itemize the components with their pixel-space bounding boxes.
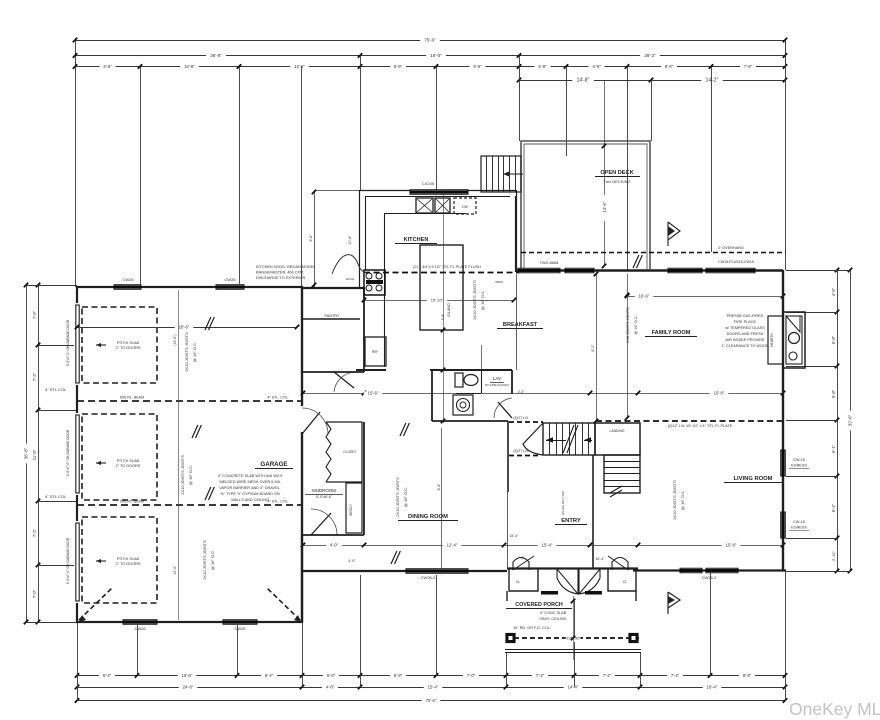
svg-text:15'-4": 15'-4" <box>509 534 519 538</box>
steel beam flush note + dashed beam <box>364 272 520 274</box>
svg-text:@ 16" O.C.: @ 16" O.C. <box>680 490 685 510</box>
svg-text:VAPOR BARRIER AND 4" GRAVEL.: VAPOR BARRIER AND 4" GRAVEL. <box>219 486 281 490</box>
svg-text:36'-8": 36'-8" <box>24 447 29 459</box>
porch column centerline dim <box>573 596 575 660</box>
svg-text:CW26-2: CW26-2 <box>702 575 717 580</box>
svg-text:LANDING: LANDING <box>609 429 624 433</box>
stair landing <box>595 423 640 455</box>
svg-text:2" TO DOORS: 2" TO DOORS <box>116 346 141 350</box>
svg-text:WALLS AND CEILING: WALLS AND CEILING <box>231 498 269 502</box>
kitchen counter lines <box>384 213 466 215</box>
svg-text:VINYL CEILING: VINYL CEILING <box>539 617 566 621</box>
svg-text:CW26: CW26 <box>224 277 236 282</box>
svg-text:7'-0": 7'-0" <box>32 310 37 319</box>
svg-text:6'-1": 6'-1" <box>831 444 836 453</box>
svg-text:4" CONC SLAB: 4" CONC SLAB <box>540 611 567 615</box>
svg-text:2X10 JOISTS JOISTS: 2X10 JOISTS JOISTS <box>184 332 189 372</box>
garage dashed slab bay 2 <box>82 414 157 500</box>
breakfast-family vertical dim <box>627 274 629 418</box>
svg-text:12'-6": 12'-6" <box>294 64 305 69</box>
svg-text:8'-6": 8'-6" <box>665 64 674 69</box>
bottom dim row1 garage 6'-4/16'-6/6'-4 and porch 7'-2/7'-2 7'-4/8'-8 <box>77 675 302 677</box>
svg-text:PITCH SLAB: PITCH SLAB <box>117 459 140 463</box>
deck stairs <box>481 156 521 192</box>
svg-text:4" CONCRETE SLAB WITH 6x6 W2.9: 4" CONCRETE SLAB WITH 6x6 W2.9 <box>218 474 282 478</box>
svg-text:LIVING ROOM: LIVING ROOM <box>734 476 773 482</box>
svg-text:8'-6": 8'-6" <box>473 64 482 69</box>
svg-text:TWG-6668: TWG-6668 <box>540 261 559 265</box>
dim line second row 36'-8 / 16'-0 / 28'-2 <box>75 55 785 57</box>
svg-text:7'-6": 7'-6" <box>744 64 753 69</box>
interior dim line 15'-6 / 15'-8 upper <box>303 393 783 395</box>
svg-text:14'-4": 14'-4" <box>568 685 579 690</box>
svg-text:@ 16" O.C.: @ 16" O.C. <box>480 290 485 310</box>
dim line third row small segments <box>75 66 785 68</box>
svg-text:ISLAND: ISLAND <box>447 303 451 317</box>
svg-text:EGRESS: EGRESS <box>791 526 807 530</box>
lower run break line <box>610 486 622 493</box>
svg-text:@ 16" O.C.: @ 16" O.C. <box>192 342 197 362</box>
mudroom bench <box>346 483 362 533</box>
svg-text:DOORS AND FRESH: DOORS AND FRESH <box>727 332 764 336</box>
dining front wall <box>302 570 507 572</box>
svg-text:LAV: LAV <box>493 376 502 381</box>
svg-text:5'-8": 5'-8" <box>538 64 547 69</box>
svg-text:REF: REF <box>372 350 378 354</box>
svg-text:CW15-PLUS15-CW15: CW15-PLUS15-CW15 <box>718 260 754 264</box>
main stair treads <box>543 423 595 455</box>
kitchen refrigerator <box>365 337 386 366</box>
dining window CW26-2 <box>406 569 468 574</box>
entry west wall <box>507 421 509 492</box>
stair direction arrows <box>546 440 566 442</box>
svg-text:21'-6": 21'-6" <box>173 565 177 574</box>
east wall <box>782 270 784 571</box>
bottom extension lines below building <box>77 622 79 701</box>
svg-text:7'-2": 7'-2" <box>32 372 37 381</box>
svg-text:2X8 JOISTS JOISTS: 2X8 JOISTS JOISTS <box>626 307 630 343</box>
svg-text:4'-6": 4'-6" <box>831 287 836 296</box>
svg-text:CW26: CW26 <box>122 277 134 282</box>
top dimension lines block <box>73 38 787 84</box>
lav washer <box>453 395 473 415</box>
garage dashed slab bay 3 <box>82 517 157 603</box>
breakfast east vertical dim <box>596 274 598 421</box>
svg-text:12'-4": 12'-4" <box>447 543 458 548</box>
kitchen sink unit double basin <box>416 198 433 213</box>
svg-text:AIR INTAKE PROVIDE: AIR INTAKE PROVIDE <box>726 338 765 342</box>
garage corner brace dashed right <box>267 588 300 620</box>
family joists slashes <box>633 255 639 268</box>
svg-text:7'-2": 7'-2" <box>603 673 612 678</box>
svg-text:CW26-2: CW26-2 <box>421 575 436 580</box>
svg-text:4'-0": 4'-0" <box>348 559 356 563</box>
svg-text:6'-4": 6'-4" <box>831 503 836 512</box>
left outer dimension line 36'-8 <box>26 285 28 622</box>
svg-text:16'-6": 16'-6" <box>182 673 193 678</box>
left dim connector stubs <box>26 285 77 287</box>
svg-text:CX245: CX245 <box>422 181 435 186</box>
svg-text:7'-2": 7'-2" <box>32 528 37 537</box>
svg-text:2" TO DOORS: 2" TO DOORS <box>116 562 141 566</box>
svg-text:(2)12" LVL W/ 1/2" x 1" STL FL: (2)12" LVL W/ 1/2" x 1" STL FL PLATE <box>668 424 733 428</box>
svg-text:15'-4": 15'-4" <box>428 685 439 690</box>
lav door <box>498 402 512 418</box>
overhang dashed line <box>521 252 786 254</box>
svg-text:(13'-6"): (13'-6") <box>173 335 177 346</box>
svg-text:16'-4": 16'-4" <box>707 685 718 690</box>
mudroom east wall <box>363 422 365 535</box>
right closet arched door <box>612 558 628 571</box>
right dim connector stubs <box>786 270 850 272</box>
svg-text:DINING ROOM: DINING ROOM <box>408 514 448 520</box>
right closet box <box>608 568 636 591</box>
svg-text:KITCHEN HOOD, BROAN MODEL: KITCHEN HOOD, BROAN MODEL <box>256 265 315 269</box>
svg-text:7'-2": 7'-2" <box>536 673 545 678</box>
garage corner brace dashed left <box>79 588 112 620</box>
left inner dimension line with segments <box>38 285 40 622</box>
svg-text:GARAGE: GARAGE <box>260 461 287 468</box>
svg-text:@ 16" O.C.: @ 16" O.C. <box>403 487 408 507</box>
garage overhead beam dashed 1 <box>77 400 302 402</box>
svg-text:BREAKFAST: BREAKFAST <box>503 322 538 328</box>
svg-text:COVERED PORCH: COVERED PORCH <box>515 602 563 608</box>
svg-text:8'-8": 8'-8" <box>394 673 403 678</box>
bottom dimension block <box>75 673 787 705</box>
garage interior dim 20'-6 <box>77 327 297 329</box>
mudroom west wall (garage right wall shared) <box>301 287 303 622</box>
kitchen west wall upper double <box>359 190 361 287</box>
bottom dim row3 75'-6 overall <box>77 700 785 702</box>
svg-text:PITCH SLAB: PITCH SLAB <box>117 557 140 561</box>
left closet box <box>509 568 538 591</box>
svg-text:5'-8": 5'-8" <box>831 335 836 344</box>
hall to mudroom door <box>336 369 360 375</box>
interior dim line lower 4'-0 / 15'-4 / 15'-8 <box>303 545 783 547</box>
kitchen island <box>420 245 463 330</box>
stair break line <box>563 425 574 453</box>
stairwell dashed LVL beam left lower <box>509 455 541 457</box>
breakfast door TWG-6668 <box>518 268 560 273</box>
bottom dim row2 24'-6 / 6'-0 / 15'-4 / 16'-4 <box>77 687 785 689</box>
svg-text:4'-8": 4'-8" <box>326 685 335 690</box>
svg-text:6X6 RL. BEAM: 6X6 RL. BEAM <box>120 396 144 400</box>
hood leader curve <box>332 255 367 274</box>
svg-text:16'-0": 16'-0" <box>430 53 442 58</box>
svg-text:9'-0"x7'-0" OH GARAGE DOOR: 9'-0"x7'-0" OH GARAGE DOOR <box>66 319 70 366</box>
svg-text:10" RD. OR F.G. COL.: 10" RD. OR F.G. COL. <box>513 626 551 630</box>
svg-text:RANGEMASTER, 460 CFM,: RANGEMASTER, 460 CFM, <box>256 271 304 275</box>
svg-text:16'-6": 16'-6" <box>184 64 195 69</box>
door thresholds <box>541 591 558 595</box>
svg-text:6'-4": 6'-4" <box>103 673 112 678</box>
stair lower run <box>604 455 640 493</box>
kitchen west wall lower <box>363 287 365 372</box>
svg-text:7'-0": 7'-0" <box>32 589 37 598</box>
svg-text:CW-15: CW-15 <box>793 458 805 462</box>
svg-text:4'-6": 4'-6" <box>592 64 601 69</box>
dishwasher dashed box <box>454 198 476 214</box>
svg-text:4'-0": 4'-0" <box>330 543 339 548</box>
svg-text:W/Cab: W/Cab <box>346 277 355 281</box>
svg-text:(2)(2") LVL: (2)(2") LVL <box>513 449 528 453</box>
fireplace assembly <box>768 316 783 364</box>
svg-text:4'-6": 4'-6" <box>103 64 112 69</box>
mudroom to dining door <box>309 531 337 539</box>
svg-text:@ 16" O.C.: @ 16" O.C. <box>188 465 193 485</box>
garage door openings left wall <box>74 303 80 385</box>
svg-text:(2)(2") LVL: (2)(2") LVL <box>513 416 528 420</box>
svg-text:DW: DW <box>462 205 468 209</box>
main house north wall <box>516 269 783 271</box>
lav walls <box>356 369 386 371</box>
kitchen left vertical dim 9-6 <box>314 190 316 287</box>
garage bottom wall windows CW26 <box>123 620 157 625</box>
right inner dimension line with segments <box>837 270 839 571</box>
svg-text:@ 16" O.C.: @ 16" O.C. <box>210 550 215 570</box>
svg-text:2" TO DOORS: 2" TO DOORS <box>116 464 141 468</box>
garage right lower wall <box>301 535 303 622</box>
svg-text:2X10 JOISTS JOISTS: 2X10 JOISTS JOISTS <box>672 480 677 520</box>
garage overhead beam dashed 2 <box>77 504 302 506</box>
section pennant marker upper <box>668 222 680 246</box>
svg-text:PANTRY: PANTRY <box>324 314 340 318</box>
svg-text:(2x10s) W/ (7,300: (2x10s) W/ (7,300 <box>561 491 565 515</box>
front double door arches <box>557 569 578 594</box>
vertical extension lines from top dims to building <box>75 66 77 287</box>
dining window center extension <box>441 428 443 571</box>
living front window CW26-2 <box>680 568 702 573</box>
porch dashed beam with columns <box>506 637 639 639</box>
kitchen width dim 15-10 <box>364 300 514 302</box>
svg-text:11'-0": 11'-0" <box>32 449 37 460</box>
svg-text:8'-4": 8'-4" <box>437 483 441 491</box>
svg-text:KITCHEN: KITCHEN <box>404 237 429 243</box>
kitchen north wall <box>359 190 516 192</box>
svg-text:8'-6": 8'-6" <box>394 64 403 69</box>
svg-text:24'-6": 24'-6" <box>183 685 194 690</box>
svg-text:2X10 JOISTS JOISTS: 2X10 JOISTS JOISTS <box>395 477 400 517</box>
dim line fourth row 14'-8 / 14'-2 <box>519 80 785 82</box>
svg-text:4" STL. COL.: 4" STL. COL. <box>267 500 288 504</box>
svg-text:(2) 1 3/4"x 9 1/2" STL FL PLAT: (2) 1 3/4"x 9 1/2" STL FL PLATE FLUSH <box>413 265 481 269</box>
svg-text:CW-15: CW-15 <box>793 520 805 524</box>
svg-text:w/ TEMPERED GLASS: w/ TEMPERED GLASS <box>725 326 765 330</box>
svg-text:1" CLEARANCE TO WOOD: 1" CLEARANCE TO WOOD <box>721 344 768 348</box>
garage dashed slab bay 1 <box>82 307 157 383</box>
svg-text:28'-2": 28'-2" <box>644 53 656 58</box>
garage to mudroom door <box>298 406 306 432</box>
garage top wall windows CW26 <box>114 285 141 290</box>
svg-text:2'-3": 2'-3" <box>518 390 524 394</box>
svg-text:WELDED WIRE MESH OVER 6 MIL: WELDED WIRE MESH OVER 6 MIL <box>219 480 281 484</box>
garage joist slashes <box>205 317 211 330</box>
svg-text:15'-8": 15'-8" <box>726 543 737 548</box>
svg-text:14'-2": 14'-2" <box>706 78 719 84</box>
svg-text:20'-6": 20'-6" <box>179 325 190 330</box>
svg-text:4" STL COL: 4" STL COL <box>45 494 67 499</box>
svg-text:PITCH SLAB: PITCH SLAB <box>117 341 140 345</box>
open deck walls <box>521 141 650 269</box>
mudroom top wall <box>302 371 364 373</box>
svg-text:5'-8": 5'-8" <box>831 389 836 398</box>
svg-text:7'-0": 7'-0" <box>467 673 476 678</box>
stair winder wedge <box>523 423 543 455</box>
svg-text:16'-6": 16'-6" <box>639 294 650 299</box>
svg-text:15'-10": 15'-10" <box>431 298 444 303</box>
svg-text:6X6 RL. BEAM: 6X6 RL. BEAM <box>120 500 144 504</box>
svg-text:9'-6": 9'-6" <box>309 234 313 242</box>
svg-text:5'-0": 5'-0" <box>327 673 336 678</box>
entry front wall <box>507 567 638 569</box>
svg-text:OPEN DECK: OPEN DECK <box>600 170 633 176</box>
deck stair direction arrow <box>503 173 523 175</box>
section pennant marker lower <box>668 592 680 614</box>
porch slab edge <box>505 649 641 651</box>
stairwell dashed LVL beam left upper <box>509 421 543 423</box>
svg-text:14'-8": 14'-8" <box>577 78 590 84</box>
svg-text:9'-0"x7'-0" OH GARAGE DOOR: 9'-0"x7'-0" OH GARAGE DOOR <box>66 429 70 476</box>
svg-text:DISCHARGE TO EXTERIOR: DISCHARGE TO EXTERIOR <box>256 276 305 280</box>
hall pantry wall <box>302 318 360 320</box>
living room east windows CW-15 egress <box>781 450 786 476</box>
svg-text:ENTRY: ENTRY <box>561 518 581 524</box>
svg-text:CW26: CW26 <box>134 626 146 631</box>
lav toilet <box>455 373 463 387</box>
garage top wall extension to kitchen wall <box>302 287 364 289</box>
deck vertical dim 14'-6 <box>604 80 606 266</box>
svg-text:W/ GPM FAUCET: W/ GPM FAUCET <box>485 383 509 387</box>
svg-text:FAMILY ROOM: FAMILY ROOM <box>652 330 691 336</box>
svg-text:7'-4": 7'-4" <box>671 673 680 678</box>
family room windows CW15-PLUS15-CW15 <box>668 268 702 273</box>
svg-text:15'-6": 15'-6" <box>368 391 379 396</box>
right outer dimension line 32'-6 <box>850 270 852 571</box>
svg-text:BENCH: BENCH <box>349 504 353 516</box>
mudroom closet <box>326 422 362 482</box>
left closet arched door <box>513 558 529 571</box>
svg-text:32'-6": 32'-6" <box>848 414 853 426</box>
kitchen vertical dim <box>443 190 445 423</box>
svg-text:4" STL. COL.: 4" STL. COL. <box>267 396 288 400</box>
kitchen sink window CX245 <box>410 190 468 195</box>
svg-text:MUDROOM: MUDROOM <box>312 488 336 493</box>
svg-text:HEARTH: HEARTH <box>770 333 774 347</box>
svg-text:8'-8": 8'-8" <box>743 673 752 678</box>
svg-text:CL: CL <box>623 580 627 584</box>
svg-text:2' OVERHANG: 2' OVERHANG <box>718 246 744 250</box>
svg-text:2X10 JOISTS JOISTS: 2X10 JOISTS JOISTS <box>202 540 207 580</box>
svg-text:%" TYPE 'X' GYPSUM BOARD ON: %" TYPE 'X' GYPSUM BOARD ON <box>220 492 280 496</box>
svg-text:PREFAB GAS-FIRED: PREFAB GAS-FIRED <box>727 314 764 318</box>
living front wall <box>633 569 786 571</box>
svg-text:9'-0"x7'-0" OH GARAGE DOOR: 9'-0"x7'-0" OH GARAGE DOOR <box>66 537 70 584</box>
family room width dim 16-6 <box>627 296 783 298</box>
garage outer walls <box>77 287 302 622</box>
kitchen west counter edge <box>384 213 386 367</box>
svg-text:2X10 JOISTS JOISTS: 2X10 JOISTS JOISTS <box>180 455 185 495</box>
dim line 75'-6 overall top <box>75 40 785 42</box>
svg-text:OneKey MLS: OneKey MLS <box>789 699 880 719</box>
svg-text:5'-0"x8'-6": 5'-0"x8'-6" <box>316 495 333 499</box>
svg-text:8'-2": 8'-2" <box>591 344 595 352</box>
svg-text:EGRESS: EGRESS <box>791 464 807 468</box>
svg-text:16'-4": 16'-4" <box>595 557 605 561</box>
kitchen east wall to deck <box>515 196 517 272</box>
svg-text:Trex DECKING: Trex DECKING <box>603 179 630 184</box>
svg-text:10'-8": 10'-8" <box>348 235 352 244</box>
stairwell dashed LVL beam right <box>596 420 783 422</box>
mudroom bottom wall <box>302 534 364 536</box>
svg-text:36'-8": 36'-8" <box>210 53 222 58</box>
svg-text:@ 16" O.C.: @ 16" O.C. <box>634 315 638 334</box>
svg-text:75'-6": 75'-6" <box>426 698 437 703</box>
svg-text:CW26: CW26 <box>234 626 246 631</box>
svg-text:15'-8": 15'-8" <box>714 391 725 396</box>
svg-text:CL: CL <box>516 580 520 584</box>
svg-text:75'-6": 75'-6" <box>424 38 436 43</box>
entry-living divider wall <box>592 455 594 568</box>
kitchen range <box>364 270 385 295</box>
svg-text:15'-4": 15'-4" <box>542 543 553 548</box>
svg-text:14'-6": 14'-6" <box>602 201 607 212</box>
svg-text:FIRE PLACE: FIRE PLACE <box>734 320 757 324</box>
garage light extension line <box>178 290 180 620</box>
svg-text:CLOSET: CLOSET <box>343 450 357 454</box>
svg-text:2X10 JOISTS JOISTS: 2X10 JOISTS JOISTS <box>472 280 477 320</box>
svg-text:6'-4": 6'-4" <box>265 673 274 678</box>
svg-text:4" STL COL: 4" STL COL <box>45 387 67 392</box>
svg-text:2'-11": 2'-11" <box>831 550 836 560</box>
svg-text:5'-8": 5'-8" <box>441 314 445 320</box>
svg-text:WDW: WDW <box>495 280 503 284</box>
porch side walls <box>506 591 508 601</box>
